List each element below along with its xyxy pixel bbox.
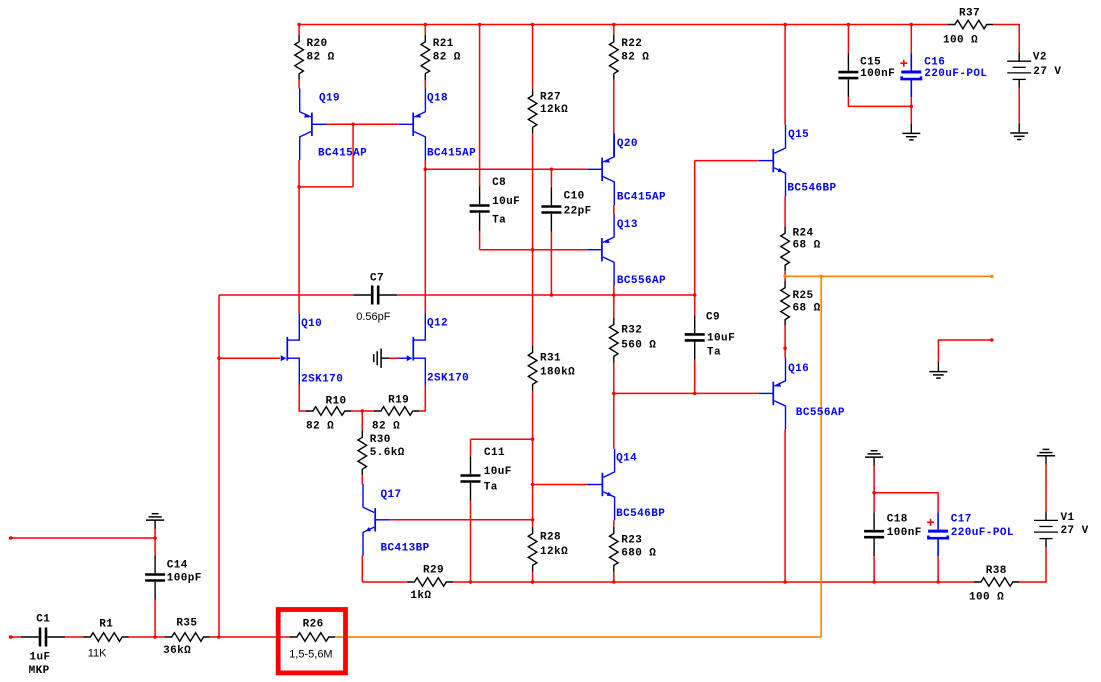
wire Q14 emitter to R23 <box>613 520 615 526</box>
wire to Q19 collector node <box>299 186 353 188</box>
wire middle rail to C9 <box>694 295 696 315</box>
resistor R21 <box>421 35 461 80</box>
transistor Q12 JFET <box>407 313 469 384</box>
wire orange node to R25 <box>784 276 786 281</box>
svg-text:Q13: Q13 <box>617 219 638 231</box>
svg-text:R31: R31 <box>540 352 561 364</box>
svg-text:Q17: Q17 <box>381 489 402 501</box>
svg-text:22pF: 22pF <box>564 206 592 218</box>
resistor R25 <box>781 281 821 326</box>
svg-text:C16: C16 <box>924 56 945 68</box>
junction dots on Q20 base net <box>424 168 554 172</box>
svg-text:27 V: 27 V <box>1033 66 1061 78</box>
svg-text:560 Ω: 560 Ω <box>621 339 656 351</box>
wire C1 to R1 <box>65 636 84 638</box>
resistor R20 <box>295 35 335 80</box>
svg-text:R26: R26 <box>303 619 324 631</box>
svg-text:C17: C17 <box>951 514 972 526</box>
wire ground to V1 <box>1045 465 1047 512</box>
svg-text:1,5-5,6M: 1,5-5,6M <box>289 649 332 661</box>
svg-text:27 V: 27 V <box>1061 525 1089 537</box>
svg-text:100 Ω: 100 Ω <box>943 34 978 46</box>
svg-text:R1: R1 <box>99 618 113 630</box>
junction dots Q19 mirror <box>297 123 355 189</box>
svg-text:10uF: 10uF <box>484 466 512 478</box>
svg-text:Q16: Q16 <box>788 363 809 375</box>
svg-text:R25: R25 <box>793 290 814 302</box>
resistor R32 <box>610 318 657 363</box>
svg-text:Q15: Q15 <box>788 129 809 141</box>
svg-text:R30: R30 <box>370 434 391 446</box>
wire node to Q10 gate <box>219 357 280 359</box>
battery V2 <box>1007 51 1061 87</box>
wire Q19 collector lead <box>298 160 300 187</box>
capacitor C15 <box>838 53 895 97</box>
svg-text:1uF: 1uF <box>30 652 51 664</box>
wire R19 to Q12 source <box>419 385 426 412</box>
resistor R38 <box>969 565 1019 604</box>
resistor R10 <box>306 395 351 432</box>
svg-text:R24: R24 <box>793 227 814 239</box>
svg-text:68 Ω: 68 Ω <box>793 240 821 252</box>
svg-text:10uF: 10uF <box>492 196 520 208</box>
wire Q17 base to R28 column <box>390 519 533 521</box>
wire output stub to ground <box>938 340 991 362</box>
wire C7 right along middle rail <box>397 294 694 296</box>
svg-text:BC413BP: BC413BP <box>381 543 430 555</box>
svg-text:BC415AP: BC415AP <box>318 147 367 159</box>
wire ground to C14 node <box>154 529 156 556</box>
svg-text:Q10: Q10 <box>301 318 322 330</box>
wire node to R31 <box>532 250 534 346</box>
wire C14 to input rail <box>154 600 156 638</box>
wire Q10 source corner <box>299 385 306 412</box>
svg-text:2SK170: 2SK170 <box>301 373 343 385</box>
wire base node down <box>352 124 354 187</box>
wire input upper stub <box>11 537 155 539</box>
wire Q19 collector to Q10 drain <box>298 187 300 313</box>
resistor R28 <box>528 527 568 572</box>
wire R20 to Q19 emitter <box>298 80 300 89</box>
resistor R35 <box>163 617 210 657</box>
svg-text:680 Ω: 680 Ω <box>621 548 656 560</box>
wire bottom rail <box>452 581 975 583</box>
capacitor C11 <box>461 447 512 501</box>
junction dot C15 C16 <box>910 105 914 109</box>
wire R35 to left column node <box>209 636 219 638</box>
wire R1 to R35 <box>128 636 165 638</box>
wire orange feedback bottom <box>335 636 822 638</box>
wire node to R26 <box>219 636 291 638</box>
ground at output stub <box>929 362 947 378</box>
capacitor C9 <box>685 311 735 359</box>
wire C11 column upper <box>470 439 472 456</box>
wire ground to C18 node <box>873 466 875 512</box>
wire C11 top to R31 column <box>471 438 533 440</box>
wire Q12 gate stub <box>389 357 399 359</box>
wire rail to C15 <box>847 25 849 54</box>
resistor R26 <box>289 619 335 661</box>
junction dots bottom rail <box>469 580 940 584</box>
wire rail to R21 <box>424 25 426 35</box>
svg-text:R22: R22 <box>621 38 642 50</box>
svg-text:220uF-POL: 220uF-POL <box>951 527 1014 539</box>
wire top rail right of R37 to V2 <box>993 25 1019 53</box>
junction dots middle rail <box>550 293 697 297</box>
wire C8 bottom to Q13 base <box>480 249 588 251</box>
svg-text:V2: V2 <box>1033 51 1047 63</box>
svg-text:36kΩ: 36kΩ <box>163 645 191 657</box>
capacitor C10 <box>541 188 591 232</box>
svg-text:R10: R10 <box>326 395 347 407</box>
wire node to C10 <box>550 169 552 187</box>
resistor R37 <box>943 7 993 46</box>
wire lower node to Q16 base <box>614 392 759 394</box>
svg-text:0.56pF: 0.56pF <box>356 311 391 323</box>
transistor Q15 <box>759 125 837 197</box>
wire Q18 collector to Q20 base <box>425 168 587 170</box>
wire C10 to middle rail <box>550 232 552 296</box>
svg-text:220uF-POL: 220uF-POL <box>924 68 987 80</box>
wire rail to R27 <box>532 25 534 89</box>
wire rail to R22 <box>613 25 615 35</box>
junction dot above Q16 <box>783 347 787 351</box>
junction dot Q17 base tap <box>531 518 535 522</box>
capacitor C1 <box>21 614 65 678</box>
wire R27 to node at Q13 base <box>532 134 534 250</box>
svg-text:82 Ω: 82 Ω <box>306 420 334 432</box>
wire Q20 collector to Q13 emitter <box>613 205 615 214</box>
wire C8 to Q13 base node <box>479 231 481 250</box>
svg-text:82 Ω: 82 Ω <box>433 52 461 64</box>
wire R19 node down to R30 <box>361 411 363 430</box>
svg-text:180kΩ: 180kΩ <box>540 366 575 378</box>
capacitor C16 <box>900 53 987 97</box>
junction dots on top rail <box>297 23 913 27</box>
svg-text:MKP: MKP <box>29 665 50 677</box>
svg-text:5.6kΩ: 5.6kΩ <box>370 447 405 459</box>
svg-text:100nF: 100nF <box>860 68 895 80</box>
svg-text:12kΩ: 12kΩ <box>540 546 568 558</box>
wire Q19 base to Q18 base <box>326 123 398 125</box>
resistor R22 <box>610 35 650 80</box>
svg-text:C18: C18 <box>887 514 908 526</box>
svg-text:82 Ω: 82 Ω <box>621 52 649 64</box>
wire rail to C16 <box>910 25 912 54</box>
wire C7 left to left column <box>219 294 353 296</box>
wire V2 to ground <box>1018 88 1020 123</box>
svg-text:100 Ω: 100 Ω <box>969 592 1004 604</box>
wire Q17 emitter to bottom rail <box>361 555 363 582</box>
ground above V1 <box>1037 449 1055 464</box>
wire R28 to bottom rail <box>532 572 534 582</box>
battery V1 <box>1034 512 1089 547</box>
wire node to R19 <box>362 410 374 412</box>
capacitor C17 <box>927 512 1014 556</box>
resistor R31 <box>528 346 575 391</box>
resistor R24 <box>781 226 821 271</box>
junction dot C18 top <box>872 491 876 495</box>
transistor Q17 <box>363 484 430 556</box>
resistor R29 <box>408 564 453 602</box>
svg-text:Q14: Q14 <box>616 453 637 465</box>
svg-text:R27: R27 <box>540 92 561 104</box>
transistor Q18 <box>399 89 476 161</box>
wire Q15 base corner <box>695 160 759 162</box>
svg-text:BC556AP: BC556AP <box>796 407 845 419</box>
svg-text:Q18: Q18 <box>427 93 448 105</box>
transistor Q20 <box>588 134 666 206</box>
wire orange feedback horizontal <box>785 275 992 277</box>
wire R21 to Q18 emitter <box>424 80 426 89</box>
wire node down to Q12 drain <box>424 169 426 313</box>
capacitor C7 <box>353 272 397 323</box>
svg-text:C9: C9 <box>706 311 720 323</box>
wire R24 to orange node <box>784 271 786 276</box>
wire bottom rail to V1 <box>1019 547 1047 582</box>
svg-text:C11: C11 <box>484 447 505 459</box>
junction dot Q10 gate node <box>217 356 221 360</box>
capacitor C14 <box>145 556 202 600</box>
transistor Q19 <box>300 89 367 161</box>
resistor R19 <box>372 394 419 432</box>
svg-text:100nF: 100nF <box>887 527 922 539</box>
capacitor C8 <box>470 177 521 231</box>
wire Q18 collector lead <box>424 160 426 169</box>
svg-text:11K: 11K <box>88 647 107 659</box>
wire R30 to Q17 collector <box>361 475 363 484</box>
wire Q15 base column down <box>694 161 696 295</box>
wire C17 to bottom rail <box>937 556 939 582</box>
svg-text:68 Ω: 68 Ω <box>793 302 821 314</box>
svg-text:C15: C15 <box>860 56 881 68</box>
svg-text:BC415AP: BC415AP <box>427 148 476 160</box>
ground below C16 <box>902 124 920 140</box>
svg-text:C1: C1 <box>36 614 50 626</box>
junction dot C11 tap <box>531 437 535 441</box>
svg-text:Ta: Ta <box>492 215 506 227</box>
capacitor C18 <box>864 512 922 556</box>
wire Q13 collector to middle rail <box>613 285 615 295</box>
svg-text:2SK170: 2SK170 <box>427 372 469 384</box>
svg-text:C14: C14 <box>167 559 188 571</box>
svg-text:V1: V1 <box>1061 512 1075 524</box>
wire node to Q14 collector <box>613 393 615 448</box>
svg-text:R28: R28 <box>540 532 561 544</box>
svg-text:R19: R19 <box>388 394 409 406</box>
svg-text:Q19: Q19 <box>319 92 340 104</box>
wire C18 node to C17 <box>874 493 938 513</box>
wire middle rail to R32 <box>613 295 615 318</box>
node input upper stub <box>9 536 157 540</box>
svg-text:R29: R29 <box>423 564 444 576</box>
wire R25 to Q16 emitter <box>784 326 786 358</box>
wire C11 column to bottom rail <box>470 501 472 583</box>
highlight box around R26 <box>278 610 345 673</box>
wire bottom rail left <box>362 581 408 583</box>
wire C16 bottom to ground <box>910 97 912 123</box>
svg-text:R37: R37 <box>959 7 980 19</box>
resistor R27 <box>528 89 568 134</box>
wire left column down to input rail <box>218 295 220 637</box>
svg-text:BC415AP: BC415AP <box>617 192 666 204</box>
svg-text:BC556AP: BC556AP <box>617 275 666 287</box>
wire Q16 collector to bottom rail <box>784 429 786 582</box>
wire R31 to R28 column <box>532 391 534 527</box>
svg-text:10uF: 10uF <box>707 332 735 344</box>
transistor Q13 <box>587 214 666 287</box>
node output stub <box>990 338 994 342</box>
svg-text:Q12: Q12 <box>427 317 448 329</box>
node input lower stub <box>9 635 13 639</box>
resistor R30 <box>358 430 405 475</box>
transistor Q14 <box>588 449 665 521</box>
svg-text:82 Ω: 82 Ω <box>307 52 335 64</box>
wire rail to C8 <box>479 25 481 187</box>
wire Q14 base <box>533 484 591 486</box>
svg-text:82 Ω: 82 Ω <box>372 420 400 432</box>
wire R32 to lower node <box>613 363 615 394</box>
wire C18 to bottom rail <box>873 556 875 582</box>
ground (sideways) at Q12 gate <box>374 349 389 368</box>
svg-text:R20: R20 <box>307 38 328 50</box>
junction dots lower node <box>612 392 697 396</box>
wire R22 to Q20 emitter <box>613 80 615 156</box>
transistor Q10 JFET <box>281 313 344 385</box>
ground above C18 <box>865 451 883 466</box>
svg-text:Ta: Ta <box>707 346 721 358</box>
svg-text:Ta: Ta <box>484 482 498 494</box>
ground below V2 <box>1010 123 1028 139</box>
wire R23 to bottom rail <box>613 572 615 582</box>
svg-text:BC546BP: BC546BP <box>787 183 836 195</box>
wire top positive rail <box>299 24 948 26</box>
ground at input top <box>146 514 164 529</box>
junction dots orange net <box>783 275 993 279</box>
svg-text:R35: R35 <box>176 617 197 629</box>
wire R10 to node <box>351 410 363 412</box>
junction dot R27 column at Q13 base net <box>531 248 535 252</box>
wire rail to R20 <box>298 25 300 35</box>
svg-text:12kΩ: 12kΩ <box>540 104 568 116</box>
svg-text:R21: R21 <box>433 38 454 50</box>
wire rail to Q15 collector <box>784 25 786 125</box>
svg-text:C10: C10 <box>564 190 585 202</box>
junction dot Q14 base tap <box>531 483 535 487</box>
svg-text:1kΩ: 1kΩ <box>410 590 431 602</box>
svg-text:C7: C7 <box>370 272 384 284</box>
transistor Q16 <box>759 358 845 430</box>
resistor R1 <box>83 618 128 659</box>
wire orange feedback vertical <box>820 276 822 637</box>
wire input stub to C1 <box>11 636 21 638</box>
wire Q15 emitter to R24 <box>784 196 786 226</box>
svg-text:R38: R38 <box>986 565 1007 577</box>
resistor R23 <box>610 527 657 572</box>
wire C9 to lower node <box>694 359 696 393</box>
svg-text:Q20: Q20 <box>617 138 638 150</box>
svg-text:R23: R23 <box>621 534 642 546</box>
svg-text:R32: R32 <box>621 324 642 336</box>
svg-text:C8: C8 <box>492 177 506 189</box>
svg-text:100pF: 100pF <box>167 573 202 585</box>
wire Q12 gate blue lead <box>399 357 407 359</box>
junction dot C14 column <box>153 635 157 639</box>
wire C15 bottom corner <box>848 97 911 106</box>
junction dot left column at input rail <box>217 635 221 639</box>
svg-text:BC546BP: BC546BP <box>616 508 665 520</box>
junction dot R10 R19 R30 node <box>361 409 365 413</box>
